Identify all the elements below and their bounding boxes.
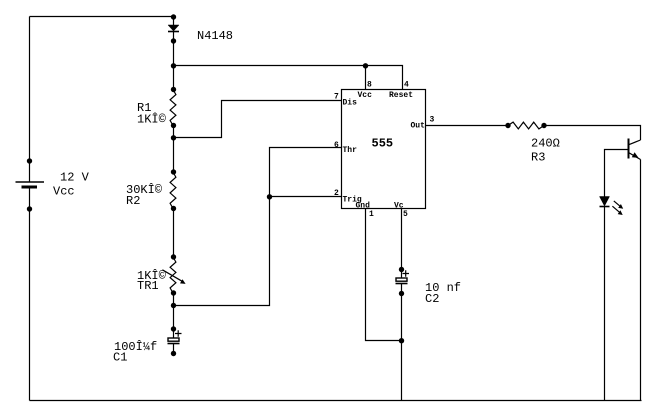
wire top rail [30, 16, 174, 18]
resistor R2 30K [126, 169, 176, 211]
wire diode branch [173, 17, 175, 26]
wire bottom rail [30, 400, 642, 402]
LED D2 [600, 197, 624, 216]
node pin2-pin6 junction [267, 194, 272, 199]
transistor Q1 NPN [629, 139, 641, 160]
wire diode to vcc node [173, 32, 175, 90]
battery B1 12V Vcc [16, 158, 90, 211]
svg-text:12 V: 12 V [60, 171, 90, 185]
svg-text:2: 2 [334, 189, 339, 198]
svg-text:240Ω: 240Ω [531, 137, 560, 151]
svg-text:Vcc: Vcc [358, 91, 373, 100]
wire R1 to R2 [173, 126, 175, 173]
resistor R1 1K [137, 87, 176, 141]
svg-text:R2: R2 [126, 194, 140, 208]
capacitor C2 10nf [396, 267, 462, 306]
wire trigger pin2 [270, 196, 342, 198]
svg-text:Vcc: Vcc [53, 185, 75, 199]
wire threshold pin6 [174, 148, 342, 306]
wire vcc rail to 555 [174, 66, 403, 90]
wire left rail lower [29, 187, 31, 401]
wire pin1 ground [366, 209, 402, 341]
op-amp U1 555 timer box [342, 90, 426, 209]
svg-text:1: 1 [369, 210, 374, 219]
svg-text:7: 7 [334, 93, 339, 102]
svg-text:Reset: Reset [389, 91, 413, 100]
svg-text:5: 5 [403, 210, 408, 219]
capacitor C1 100uf polarized [113, 326, 182, 364]
trimmer TR1 1K [137, 254, 186, 308]
wire pin8 stub [365, 66, 367, 90]
svg-text:Gnd: Gnd [356, 201, 371, 210]
wire emitter to bottom rail [640, 160, 642, 401]
node vcc stub junction [363, 63, 368, 68]
svg-text:C2: C2 [425, 292, 439, 306]
wire LED to bottom rail [604, 207, 606, 401]
svg-text:TR1: TR1 [137, 279, 159, 293]
wire C1 lower lead [173, 344, 175, 354]
svg-text:4: 4 [404, 80, 409, 89]
svg-text:Dis: Dis [343, 99, 358, 108]
svg-text:6: 6 [334, 141, 339, 150]
wire R2 to TR1 [173, 209, 175, 258]
wire left rail upper [29, 17, 31, 182]
wire out pin3 to corner [426, 126, 641, 141]
svg-text:Vc: Vc [394, 201, 404, 210]
svg-text:8: 8 [367, 80, 372, 89]
wire pin5 / C2 branch [401, 209, 403, 401]
diode D1 N4148 [168, 14, 233, 68]
svg-text:C1: C1 [113, 351, 127, 365]
resistor R3 240ohm [505, 122, 560, 164]
svg-text:R3: R3 [531, 151, 545, 165]
svg-text:555: 555 [372, 137, 394, 151]
svg-text:1KÎ©: 1KÎ© [137, 112, 167, 127]
wire pin7 discharge [174, 101, 342, 138]
svg-text:Out: Out [411, 122, 426, 131]
node gnd junction [399, 338, 404, 343]
svg-text:N4148: N4148 [197, 29, 233, 43]
svg-text:Thr: Thr [343, 146, 358, 155]
wire base to LED branch [605, 150, 629, 197]
wire TR1 to C1 [173, 293, 175, 338]
svg-text:3: 3 [430, 116, 435, 125]
